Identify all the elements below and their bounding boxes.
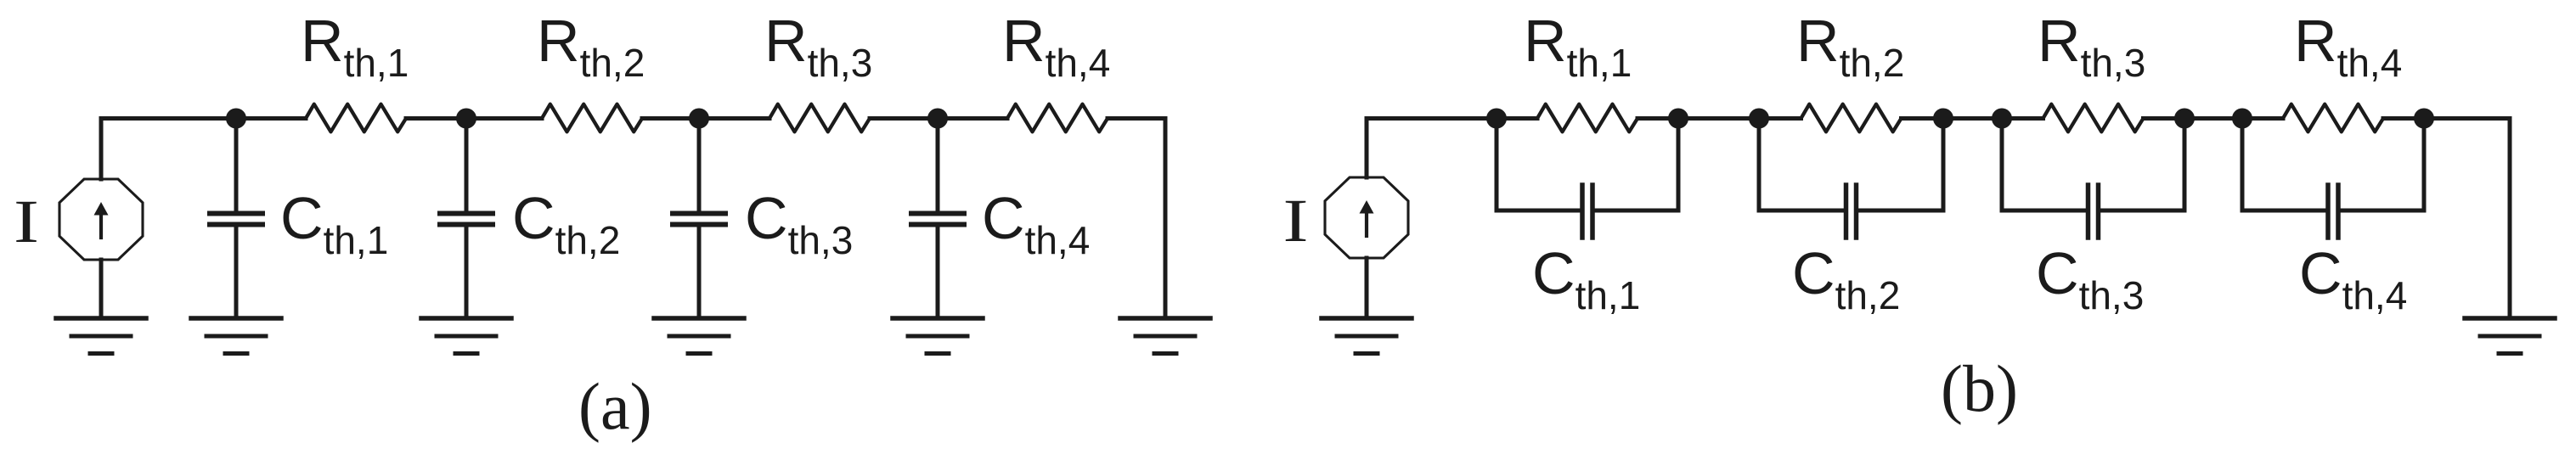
svg-text:Cth,4: Cth,4: [2299, 240, 2407, 317]
capacitor C_th,1 (b): [1582, 185, 1592, 238]
wire bottom right (pair 3, b): [2099, 209, 2185, 213]
ground under source (b): [1322, 318, 1412, 354]
wire capacitor C_th,2 to ground (a): [465, 227, 469, 318]
wire capacitor C_th,1 to ground (a): [234, 227, 239, 318]
node 1 junction dot (a): [226, 109, 246, 129]
wire right node down (pair 2, b): [1942, 119, 1946, 211]
resistor R_th,4 (a): [1007, 104, 1108, 132]
wire right end down (b): [2508, 119, 2512, 318]
wire left node down (pair 3, b): [2000, 119, 2004, 211]
svg-text:Rth,1: Rth,1: [301, 8, 409, 85]
resistor R_th,1 (a): [306, 104, 406, 132]
wire left node down (pair 1, b): [1495, 119, 1499, 211]
ground right end (a): [1120, 318, 1210, 354]
capacitor C_th,4 (a): [911, 214, 964, 225]
capacitor C_th,3 (a): [673, 214, 725, 225]
resistor R_th,3 (b): [2043, 104, 2144, 132]
wire source bottom to ground (a): [99, 260, 104, 317]
ground under C_th,2 (a): [421, 318, 511, 354]
wire bottom right (pair 2, b): [1857, 209, 1944, 213]
node right of pair 4 (b): [2414, 109, 2434, 129]
wire top rail segment 2 (a): [406, 116, 542, 121]
wire capacitor C_th,3 to ground (a): [697, 227, 702, 318]
capacitor C_th,3 (b): [2088, 185, 2099, 238]
node left of pair 3 (b): [1992, 109, 2012, 129]
svg-text:(b): (b): [1941, 351, 2018, 425]
wire top rail segment 4 (b): [2144, 116, 2284, 121]
svg-text:I: I: [1283, 187, 1309, 255]
wire node 4 down to capacitor (a): [936, 119, 940, 212]
node right of pair 1 (b): [1668, 109, 1688, 129]
svg-text:Rth,3: Rth,3: [2038, 8, 2145, 85]
ground under C_th,3 (a): [654, 318, 744, 354]
wire bottom right (pair 4, b): [2338, 209, 2424, 213]
resistor R_th,2 (a): [542, 104, 642, 132]
node right of pair 3 (b): [2174, 109, 2195, 129]
wire node 2 down to capacitor (a): [465, 119, 469, 212]
wire bottom left (pair 4, b): [2242, 209, 2328, 213]
svg-text:Cth,2: Cth,2: [512, 185, 620, 262]
svg-text:Rth,4: Rth,4: [2294, 8, 2402, 85]
wire source top to rail (a): [99, 119, 104, 180]
resistor R_th,1 (b): [1537, 104, 1637, 132]
wire bottom left (pair 3, b): [2002, 209, 2088, 213]
resistor R_th,2 (b): [1801, 104, 1902, 132]
wire top rail segment 1 (b): [1367, 116, 1537, 121]
ground right end (b): [2465, 318, 2555, 354]
wire node 3 down to capacitor (a): [697, 119, 702, 212]
svg-text:Cth,2: Cth,2: [1792, 240, 1900, 317]
svg-text:Rth,2: Rth,2: [537, 8, 645, 85]
svg-text:I: I: [14, 188, 39, 255]
svg-text:Cth,4: Cth,4: [982, 185, 1090, 262]
svg-text:Rth,1: Rth,1: [1524, 8, 1632, 85]
resistor R_th,3 (a): [769, 104, 870, 132]
svg-text:Cth,1: Cth,1: [280, 185, 388, 262]
capacitor C_th,4 (b): [2328, 185, 2338, 238]
wire top rail segment 1 (a): [101, 116, 306, 121]
wire capacitor C_th,4 to ground (a): [936, 227, 940, 318]
ground under C_th,4 (a): [893, 318, 983, 354]
svg-text:(a): (a): [578, 369, 652, 443]
svg-text:Cth,3: Cth,3: [745, 185, 853, 262]
wire right node down (pair 4, b): [2422, 119, 2427, 211]
wire top rail segment 5 (b): [2383, 116, 2510, 121]
wire bottom right (pair 1, b): [1592, 209, 1678, 213]
node left of pair 4 (b): [2232, 109, 2252, 129]
wire top rail segment 5 (a): [1108, 116, 1165, 121]
svg-text:Cth,1: Cth,1: [1532, 240, 1640, 317]
capacitor C_th,2 (a): [440, 214, 493, 225]
wire right node down (pair 1, b): [1677, 119, 1681, 211]
wire top rail segment 3 (b): [1902, 116, 2043, 121]
node 4 junction dot (a): [927, 109, 948, 129]
wire source top to rail (b): [1365, 119, 1369, 178]
wire left node down (pair 2, b): [1757, 119, 1761, 211]
wire top rail segment 2 (b): [1637, 116, 1801, 121]
current source I (circuit a) (octagon with up arrow): [59, 179, 143, 260]
svg-text:Cth,3: Cth,3: [2036, 240, 2144, 317]
svg-text:Rth,2: Rth,2: [1796, 8, 1904, 85]
wire bottom left (pair 2, b): [1759, 209, 1846, 213]
current source I (circuit b) (octagon with up arrow): [1325, 177, 1408, 258]
svg-text:Rth,4: Rth,4: [1002, 8, 1110, 85]
wire source bottom to ground (b): [1365, 258, 1369, 317]
resistor R_th,4 (b): [2283, 104, 2383, 132]
node left of pair 1 (b): [1486, 109, 1507, 129]
node 3 junction dot (a): [689, 109, 709, 129]
ground under source (a): [56, 318, 146, 354]
wire node 1 down to capacitor (a): [234, 119, 239, 212]
wire top rail segment 4 (a): [870, 116, 1007, 121]
capacitor C_th,2 (b): [1846, 185, 1857, 238]
node 2 junction dot (a): [456, 109, 476, 129]
svg-text:Rth,3: Rth,3: [764, 8, 872, 85]
wire right node down (pair 3, b): [2183, 119, 2187, 211]
ground under C_th,1 (a): [191, 318, 281, 354]
capacitor C_th,1 (a): [210, 214, 262, 225]
node right of pair 2 (b): [1933, 109, 1953, 129]
wire bottom left (pair 1, b): [1497, 209, 1582, 213]
wire right end down (a): [1164, 119, 1168, 318]
wire left node down (pair 4, b): [2241, 119, 2245, 211]
wire top rail segment 3 (a): [642, 116, 769, 121]
node left of pair 2 (b): [1749, 109, 1769, 129]
